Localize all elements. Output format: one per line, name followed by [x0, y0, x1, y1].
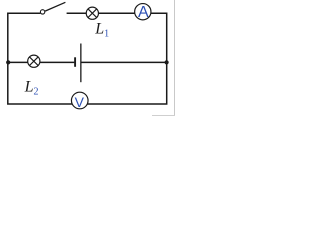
screenshot partial border bottom edge: [152, 115, 175, 116]
svg-text:V: V: [75, 94, 85, 110]
lamp L2 circle: [28, 55, 40, 67]
battery cell positive long plate: [80, 44, 82, 83]
wire middle branch left segment: [8, 61, 75, 63]
ammeter A circle: [135, 4, 151, 20]
lamp L1 circle: [86, 7, 98, 19]
lamp L1 cross: [88, 9, 97, 18]
node junction dot right: [165, 60, 169, 64]
switch S blade (open): [45, 2, 65, 11]
lamp L2 cross: [29, 57, 38, 66]
screenshot partial border right edge: [174, 0, 175, 116]
wire outer loop (left rail, bottom wire, right rail, top wire with switch gap): [8, 13, 167, 104]
svg-text:A: A: [138, 4, 149, 21]
battery cell negative short plate: [74, 57, 76, 67]
switch S pivot circle: [40, 10, 44, 14]
voltmeter V circle: [71, 92, 88, 109]
wire middle branch right segment: [81, 61, 167, 63]
node junction dot left: [6, 60, 10, 64]
